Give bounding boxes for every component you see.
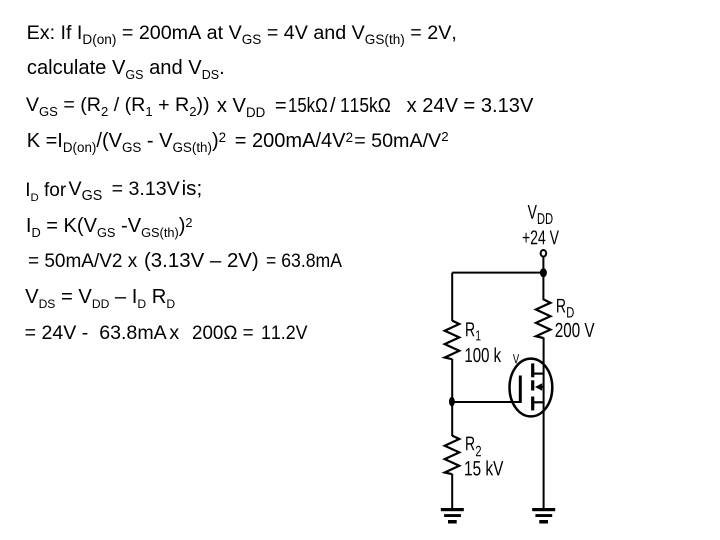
resistor R2 bbox=[445, 436, 460, 475]
resistor R1 bbox=[445, 321, 460, 360]
transistor Q1 body bbox=[510, 359, 553, 417]
text line 9 part 2 bbox=[169, 324, 179, 344]
text line 5 part 2 bbox=[69, 180, 180, 200]
wire horizontal top bbox=[452, 272, 543, 274]
supply terminal (open circle) bbox=[541, 250, 547, 257]
channel segment bottom bbox=[531, 397, 534, 411]
gate bar bbox=[519, 376, 522, 403]
label 100 k bbox=[466, 347, 502, 362]
ground left bbox=[441, 508, 464, 524]
channel segment top bbox=[531, 363, 534, 377]
text line 7 part 1 bbox=[28, 252, 137, 272]
label V (hidden by transistor) bbox=[513, 354, 519, 363]
label 200 V bbox=[556, 323, 595, 337]
text line 5 part 3 bbox=[182, 179, 203, 200]
label 15 kV bbox=[465, 460, 503, 475]
text line 3 part 1 bbox=[26, 96, 210, 116]
text line 9 part 4 bbox=[261, 324, 308, 343]
text line 9 part 3 bbox=[192, 324, 254, 344]
text line 1 bbox=[27, 24, 457, 44]
text line 5 part 1 bbox=[25, 181, 66, 200]
wire R1 to R2 bbox=[451, 359, 453, 436]
wire R2 to ground bbox=[451, 474, 453, 508]
substrate arrow wire bbox=[538, 386, 544, 388]
text line 7 part 3 bbox=[266, 252, 342, 271]
text line 3 part 2 bbox=[217, 96, 287, 116]
text line 4 part 3 bbox=[354, 132, 448, 152]
label VDD bbox=[528, 205, 553, 224]
wire gate bbox=[452, 401, 521, 403]
text line 2 bbox=[27, 58, 225, 78]
text line 8 bbox=[25, 287, 175, 307]
wire terminal to junction bbox=[542, 257, 544, 273]
label RD bbox=[557, 299, 574, 318]
wire left down to R1 bbox=[451, 273, 453, 321]
text line 7 part 2 bbox=[144, 251, 259, 271]
text line 4 part 1 bbox=[27, 131, 226, 151]
text line 3 part 4 bbox=[340, 96, 391, 116]
drain tab bbox=[533, 373, 544, 375]
channel segment middle bbox=[531, 380, 534, 390]
text line 6 bbox=[26, 216, 193, 236]
junction dot top bbox=[540, 268, 547, 277]
substrate arrow head bbox=[535, 383, 542, 391]
source tab bbox=[533, 401, 544, 403]
wire RD top bbox=[542, 273, 544, 300]
text line 9 part 1 bbox=[25, 324, 167, 344]
text line 3 part 5 bbox=[407, 96, 534, 116]
label R2 bbox=[466, 437, 481, 457]
junction dot gate bbox=[449, 397, 455, 407]
text line 3 slash bbox=[330, 96, 336, 116]
label R1 bbox=[466, 322, 480, 340]
text line 4 part 2 bbox=[235, 131, 353, 151]
ground right bbox=[532, 508, 555, 524]
resistor RD bbox=[536, 299, 551, 338]
wire drain-source vertical bbox=[543, 338, 545, 509]
text line 3 part 3 bbox=[288, 96, 328, 116]
label +24 V bbox=[523, 230, 559, 244]
